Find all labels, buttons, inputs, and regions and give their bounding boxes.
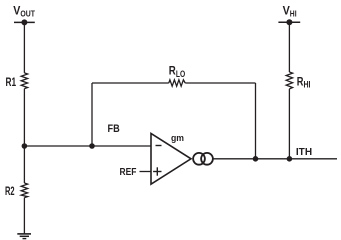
svg-text:HI: HI	[304, 79, 311, 89]
label RLO	[169, 66, 185, 79]
current source circles	[193, 153, 213, 165]
wire RLO left	[92, 82, 169, 84]
op-amp plus pin	[153, 167, 161, 175]
svg-text:ITH: ITH	[296, 147, 312, 158]
resistor RLO	[169, 80, 185, 86]
junction divider node	[22, 143, 28, 149]
op-amp U1 triangle	[151, 133, 191, 184]
svg-text:gm: gm	[171, 133, 184, 144]
wire RHI to ITH	[288, 89, 290, 159]
wire RLO right	[185, 82, 255, 84]
wire RLO drop to ITH	[255, 83, 257, 159]
svg-text:REF: REF	[120, 166, 137, 178]
node VOUT terminal	[14, 19, 35, 25]
svg-text:R2: R2	[5, 186, 15, 198]
wire ITH output	[213, 158, 337, 160]
svg-text:LO: LO	[176, 69, 185, 79]
wire FB horizontal	[24, 145, 151, 147]
wire VOUT to R1	[23, 22, 25, 73]
junction RLO-ITH	[253, 156, 259, 162]
ground	[17, 234, 31, 239]
svg-text:R1: R1	[6, 77, 17, 89]
svg-text:HI: HI	[290, 9, 297, 19]
resistor RHI	[286, 72, 292, 89]
resistor R1	[21, 73, 27, 89]
resistor R2	[21, 183, 27, 198]
label VHI	[283, 6, 297, 19]
wire R1 to R2	[23, 89, 25, 183]
junction RHI-ITH	[287, 156, 293, 162]
wire VHI to RHI	[288, 22, 290, 72]
node VHI terminal	[278, 19, 300, 25]
wire FB riser	[91, 83, 93, 146]
svg-text:OUT: OUT	[20, 9, 35, 19]
svg-text:FB: FB	[108, 123, 120, 135]
wire R2 to ground	[23, 198, 25, 234]
label VOUT	[13, 5, 35, 18]
wire REF stub	[140, 171, 152, 173]
node FB junction	[89, 143, 95, 149]
op-amp minus pin	[156, 145, 162, 147]
label RHI	[297, 76, 311, 89]
